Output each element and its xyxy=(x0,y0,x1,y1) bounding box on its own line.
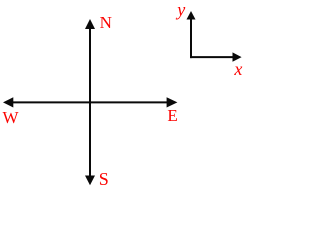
svg-text:S: S xyxy=(99,169,109,189)
svg-text:y: y xyxy=(175,0,185,19)
svg-text:N: N xyxy=(100,13,112,32)
svg-text:x: x xyxy=(233,59,242,79)
svg-text:W: W xyxy=(3,108,20,127)
svg-text:E: E xyxy=(167,106,177,125)
